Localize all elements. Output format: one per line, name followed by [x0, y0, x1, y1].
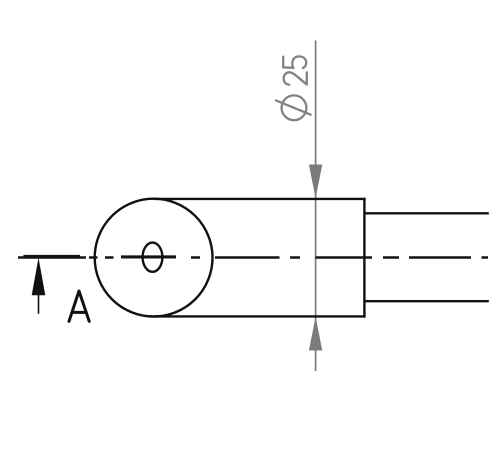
- diameter symbol circle: [282, 95, 307, 120]
- large circle (cylinder end view): [95, 199, 213, 317]
- datum arrow tail: [38, 294, 40, 314]
- datum arrowhead (points up): [32, 258, 46, 295]
- digit 2: [284, 72, 307, 84]
- centerline (horizontal dash-dot axis): [18, 256, 488, 259]
- dimension text "⌀25" rotated 90° CCW: [276, 56, 311, 120]
- shaft top edge: [364, 212, 488, 214]
- digit 5: [283, 56, 306, 68]
- body top edge (tangent line): [154, 198, 366, 200]
- dimension arrowhead bottom (points up): [309, 317, 322, 351]
- body right edge: [363, 198, 365, 318]
- datum label A: [69, 291, 89, 321]
- datum leader thick line: [23, 255, 80, 258]
- dimension arrowhead top (points down): [309, 165, 322, 199]
- diameter symbol slash: [276, 100, 311, 114]
- body bottom edge (tangent line): [154, 315, 366, 317]
- small bore ellipse: [143, 243, 163, 272]
- shaft bottom edge: [364, 300, 488, 302]
- dimension extension line (vertical grey): [315, 41, 317, 372]
